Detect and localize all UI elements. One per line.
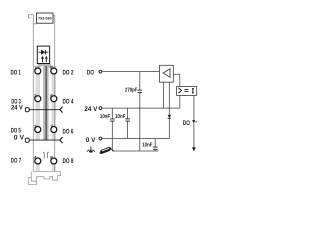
opto LED symbol [178,88,181,93]
LED diode symbol inside box [39,51,49,53]
24V jumper wire through module [29,109,59,111]
svg-text:DO 6: DO 6 [63,129,74,136]
terminal 3 [35,127,41,133]
svg-text:DO 1: DO 1 [11,69,22,76]
wire 0V rail [102,138,169,140]
op-amp driver box U1 [160,65,174,82]
24V feed flag contact [25,108,29,112]
order number box 753-530 [37,13,54,23]
driver triangle [163,69,170,77]
capacitor 270pF wire from DO line [139,72,141,90]
node 24V terminal circle [99,107,102,110]
module internal bus dark core line [46,64,47,141]
module left edge [32,24,34,172]
jumper contact hook left between terminals 4 and 8 [43,152,44,158]
functional earth symbol [90,147,92,151]
capacitor C1 10nF wire from 24V [111,108,113,118]
svg-text:10nF: 10nF [100,114,111,120]
LED arrows inside box [43,58,47,63]
jumper contact hook right between terminals 4 and 8 [47,152,48,158]
terminal 8 [51,158,57,164]
svg-text:10nF: 10nF [142,143,153,149]
terminal 7 [51,127,57,133]
opto-coupler box U2 [177,87,197,96]
capacitor C2 plates [125,119,130,121]
terminal 1 [35,68,41,74]
wire driver leg through diode to 0V rail [168,82,170,138]
0V jumper contact chevron [60,137,63,143]
status LED box on module [37,46,49,63]
svg-text:DO: DO [183,120,190,127]
diode D1 [168,115,172,118]
opto transistor [192,88,194,93]
svg-text:DO 2: DO 2 [63,69,74,76]
capacitor 270pF lower wire to earth rail [139,93,141,151]
module gray leg box to terminal 1 [38,64,40,69]
capacitor C3 10nF wire from 0V [154,139,156,147]
DIN rail chassis symbol [99,147,111,154]
module top-left mounting hook [29,14,37,23]
opto light bars [184,90,188,92]
wire driver leg to 24V rail [163,82,165,108]
capacitor 270pF plates [138,90,142,92]
svg-text:270pF: 270pF [125,88,138,94]
wire DO to driver [102,71,160,73]
module gray fill below LED box [38,64,49,67]
terminal 6 [51,96,57,102]
wire 24V rail [102,107,180,109]
DIN rail foot gray profile left piece [28,172,36,185]
capacitor C2 10nF wire from 24V [127,108,129,118]
wire opto bottom to 24V rail [179,95,181,108]
wire driver output to opto [173,74,180,86]
svg-text:0 V: 0 V [14,135,25,142]
wire opto to DO output [193,95,195,148]
0V jumper wire through module [29,139,59,141]
module body light gray terminal strip right [52,66,56,140]
svg-text:0 V: 0 V [86,137,96,144]
0V feed flag contact [25,138,29,142]
wire earth rail [112,150,158,152]
module right edge [53,16,55,172]
DIN rail foot gray profile right piece [37,172,61,182]
node 0V terminal circle [99,137,102,140]
svg-text:DO 4: DO 4 [63,98,74,105]
capacitor C3 plates [153,147,158,149]
DO direction arrow on wire [192,120,195,123]
svg-text:24 V: 24 V [11,104,23,111]
capacitor C1 plates [110,119,115,121]
svg-text:DO: DO [87,70,94,77]
svg-text:DO 7: DO 7 [11,158,22,165]
module gray leg box to terminal 5 [47,64,53,69]
terminal 4 [35,158,41,164]
capacitor C3 lower wire to earth rail [154,150,156,151]
capacitor C2 lower wire to 0V rail [127,122,129,139]
gray stub below terminal 4 [36,164,40,171]
24V jumper contact chevron [60,107,63,113]
module bottom edge [33,170,60,172]
svg-text:DO 8: DO 8 [63,158,74,165]
gray stub below terminal 8 [52,164,56,171]
terminal 2 [35,96,41,102]
node DO terminal circle [99,70,102,73]
svg-text:DO 5: DO 5 [11,128,21,135]
svg-text:24 V: 24 V [84,106,98,113]
wire end arrowhead [192,147,196,151]
capacitor C1 lower wire to earth rail [111,122,113,152]
module body light gray terminal strip left [36,66,40,140]
svg-text:753-530: 753-530 [38,17,51,21]
svg-text:10nF: 10nF [115,114,126,120]
module internal bus gray band [43,64,49,141]
terminal 5 [51,68,57,74]
